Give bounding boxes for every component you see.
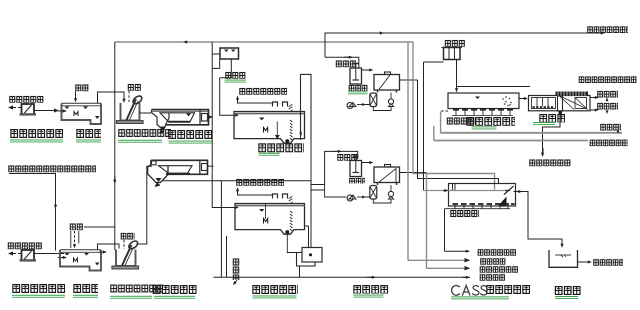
anaerobic hydrolysis tank 厌氧水解池 no.1 xyxy=(234,112,305,144)
label 中浓度污水 (medium-strength wastewater) xyxy=(8,242,43,249)
wire: air header drops from aeration tank xyxy=(440,112,442,134)
label 配水井 (no.1) xyxy=(225,72,246,79)
wire: black vertical bus x=417.5 feeding CASS xyxy=(418,80,499,184)
biogas offtake pipes on tank no.2 roof xyxy=(273,194,293,204)
green underline xyxy=(225,79,247,82)
gray air duct line y=140.5 xyxy=(434,140,588,142)
biogas offtake pipes on tank no.1 roof xyxy=(273,102,293,112)
wire: screened overflow outfall (dashed, arrow left) xyxy=(9,253,21,255)
wire: gray stub y=260.3 xyxy=(408,259,469,261)
wire: aeration tank outlet to clarifier xyxy=(519,98,527,100)
flotation feed pump sump (double box) xyxy=(297,248,323,267)
wire: saturator outlet to CASS feed bus xyxy=(400,79,418,81)
wire: long vertical bus x=212.2 (top bus to anaerobic tank no.2 inlet) xyxy=(212,48,220,54)
label 反应器 (upper, green underline) xyxy=(349,85,368,92)
wire: bottom long header y=277.3 to outfall stub xyxy=(214,276,471,278)
drain arrow xyxy=(234,280,238,285)
wire: lower screen tank riser up to lamella settling tank xyxy=(137,166,152,244)
wire: black vertical x=423.5 (shaft header to CASS water line) xyxy=(424,61,444,63)
wire: clarifier effluent arrows to municipal drain xyxy=(590,97,598,99)
wire: well no.1 right downcomer to bus x=219.7 xyxy=(220,59,232,78)
recirculation pump (lower) xyxy=(347,195,365,201)
label 去气体处理设备 (lower) xyxy=(236,179,284,186)
wire: well no.2 drop to aeration tank inlet xyxy=(456,60,458,92)
wire: column to valve piping (upper) xyxy=(365,93,391,111)
label row: 粗格栅集水井 (lower) xyxy=(12,284,65,294)
wire: riser feeding lower flocculant unit xyxy=(325,151,358,184)
wire: gray vertical bus x=413 feeding CASS top xyxy=(413,42,495,190)
distribution well 配水井 no.2 xyxy=(442,48,463,60)
label 来自鼓风机房 (right) xyxy=(590,139,628,146)
label 接纳海池 (stub) xyxy=(480,274,506,281)
label 配水井 no.2 xyxy=(445,40,466,47)
wire: well no.1 left downcomer to bus x=212.2 xyxy=(212,59,220,68)
secondary clarifier 二沉池 xyxy=(529,92,591,116)
wire: screen box to lower equalization tank xyxy=(35,253,65,255)
wire: inlet arrow anaerobic tank no.2 xyxy=(230,207,238,209)
wire: biogas header to gas treatment (tank no.1) xyxy=(238,97,273,104)
label 调节池 (lower) xyxy=(73,284,98,294)
wire: drain vertical x=226.5 to bottom header xyxy=(226,236,228,277)
pressure release valve (lower) xyxy=(388,191,393,199)
label 反应器 (lower) xyxy=(349,178,365,184)
wire: screened overflow to outfall (dashed, arrow left) xyxy=(9,107,21,109)
wire: thickener drop arrow above 去污泥浓缩池 mid label xyxy=(542,148,544,156)
wire: inlet arrow into equalization tank xyxy=(58,110,66,112)
dissolved air release column (lower) xyxy=(370,186,377,200)
label CASS好氧反应池 xyxy=(452,285,487,295)
distribution well 配水井 (no.1) xyxy=(220,48,239,59)
flocculant dosing tank with mixer (lower) xyxy=(350,156,362,177)
wire: column to valve piping (lower) xyxy=(365,185,391,203)
gray air duct line y=132.8 xyxy=(441,132,622,134)
equalization tank 调节池 (upper) xyxy=(62,103,102,124)
wire: equalization tank riser to mechanical screen channel xyxy=(98,92,125,103)
wire: clarifier outlet down then to buffer tank xyxy=(514,191,522,193)
label 自辐流沉淀池污泥回流 xyxy=(579,76,637,83)
wire: saturator outlet (lower) to bus x=426.5 xyxy=(400,172,427,174)
plug-flow aeration tank 推流曝气池 xyxy=(448,93,519,116)
CASS aerobic reactor tank xyxy=(424,184,516,209)
wire: lamella sludge line to vertical bus x=221.4 xyxy=(163,180,311,182)
coarse bar screen box (lower train) xyxy=(20,250,37,262)
effluent shaft (tall narrow chamber) beside anaerobic tanks xyxy=(301,74,312,140)
label 厌氧水解池 no.1 xyxy=(258,143,304,153)
dissolved air release column (upper) xyxy=(370,93,377,107)
label 二沉池 xyxy=(539,114,565,123)
label 高浓度污水 (high-strength wastewater) xyxy=(9,96,44,103)
green underline xyxy=(259,152,280,155)
label 鼓风曝气 (under CASS) xyxy=(450,210,479,218)
wire: sump drop to bottom header xyxy=(299,266,301,277)
recirculation pump (upper) xyxy=(347,103,365,109)
label 去集泥池 (stub) xyxy=(480,258,506,265)
wire: branch y=57 feeding upper flocculant unit xyxy=(325,57,359,67)
green underline xyxy=(118,139,162,142)
coarse bar screen box (upper train) xyxy=(20,104,37,116)
label 石灰 (lime, upper equalization tank) xyxy=(75,84,89,91)
label 来自鼓风机房 (stub) xyxy=(478,249,517,256)
label 除油沉淀池 (overlapping) xyxy=(168,130,212,140)
equalization tank 调节池 (lower) xyxy=(60,250,101,271)
wire: lime dashed drop into lower equalization tank xyxy=(74,231,76,248)
wire: gray vertical bus x=426.5 to thickener stub xyxy=(426,173,428,269)
flocculant dosing tank with mixer (upper) xyxy=(350,64,362,85)
wire: lamella tank outlet joins bus x=213.5 xyxy=(208,165,214,167)
label 自浓缩池上清液、脱水间污水 xyxy=(8,165,96,172)
wire: bottom header stub arrow xyxy=(462,276,469,278)
oil removal sedimentation tank 除油沉淀池 xyxy=(152,110,209,134)
label 去污泥浓缩池 (top right) xyxy=(587,26,628,33)
green underline xyxy=(76,139,101,142)
wire: tank no.2 outlet to bus x=318 xyxy=(305,225,309,227)
lamella settling tank 斜板沉淀池 xyxy=(148,160,208,187)
wire: blower air stub y=251.2 xyxy=(445,250,470,252)
wire: branch y=184.5 to flotation pump suction xyxy=(311,185,346,198)
label 接市政排 b xyxy=(597,103,618,110)
label 絮凝剂 (lower) xyxy=(337,154,358,161)
label 斜板沉淀池 (overlapping) xyxy=(153,285,197,295)
label 去污泥浓缩池 (mid right) xyxy=(529,159,571,166)
mechanical fine screen tank 机械格栅集水井 (upper) xyxy=(117,94,144,123)
wire: buffer tank outlet to reuse pipe xyxy=(578,261,592,263)
anaerobic hydrolysis tank 厌氧水解池 no.2 xyxy=(235,204,305,253)
wire: lime line y=227 to feeder x=114.8 xyxy=(84,226,115,228)
wire: dosing tank to saturator (lower) xyxy=(362,162,373,164)
wire: CASS air drop x=444.5 to blower stub xyxy=(444,209,446,252)
wire: lime dashed drop into lower mechanical screen xyxy=(123,240,125,249)
mechanical fine screen tank 机械格栅集水井 (lower) xyxy=(112,240,139,269)
label 去污泥浓缩池 (stub) xyxy=(480,266,519,273)
wire: lower equalization riser to mechanical screen xyxy=(98,244,120,250)
label 去气体处理设备 (upper) xyxy=(239,88,287,95)
wire: biogas header to gas treatment (tank no.2) xyxy=(238,188,273,195)
wire: supernatant line down to lower equalization inlet xyxy=(9,174,56,251)
buffer tank 缓冲池 xyxy=(549,250,578,267)
wire: top black bus riser x=325 and y=33 line to sludge thickener xyxy=(325,33,604,57)
label 接回用水管 xyxy=(593,259,623,266)
label 接市政排 c xyxy=(600,124,621,131)
wire: lime dashed drop into mechanical screen tank xyxy=(128,91,130,102)
wire: long vertical bus x=312.5 down to flotation pump sump xyxy=(309,140,312,247)
wire: dosing tank to saturator (upper) xyxy=(362,69,373,71)
wire: sedimentation tank outlet to distribution well riser xyxy=(209,116,213,118)
small up-down arrows near right labels xyxy=(606,98,608,101)
wire: top gray distribution bus y=42 xyxy=(115,41,413,43)
label 缓冲池 xyxy=(555,286,582,296)
label 机械格栅集水井 (lower) xyxy=(110,284,163,294)
vertical label 排放口 beside drain xyxy=(233,258,241,280)
pressure release valve (upper) xyxy=(388,99,393,107)
wire: lime dosing line into upper equalization tank xyxy=(75,92,77,102)
wire: vertical bus x=221.4 down to bottom header xyxy=(220,181,222,277)
wire: inlet arrow anaerobic tank no.1 xyxy=(230,114,238,116)
wire: long vertical feeder x=114.8 from top bus to lower train xyxy=(114,42,116,250)
label 石灰 (lime, lower mechanical screen) xyxy=(121,233,135,240)
wire: return sludge line y=86.5 xyxy=(457,86,531,88)
wire: mechanical screen to oil-removal sedimentation tank xyxy=(140,112,152,114)
label row: 粗格栅集水井 (upper) xyxy=(10,129,63,139)
green underline xyxy=(169,140,212,143)
label 絮凝剂 (upper) xyxy=(336,60,357,67)
label 石灰 (lime, lower equalization) xyxy=(70,223,84,230)
wire: vertical bus x=219.7 feeding anaerobic tank no.1 xyxy=(220,78,230,116)
label 厌氧水解池 no.2 xyxy=(252,285,298,295)
wire: gray stub y=268.3 xyxy=(427,267,470,269)
label 鼓风曝气+推流曝气池 (under aeration tank) xyxy=(447,117,476,125)
wire: screen box to equalization tank xyxy=(35,110,59,112)
wire: gray vertical bus x=408 (flotation effluent) xyxy=(407,42,409,261)
label 机械格栅集水井 (upper) xyxy=(118,129,171,139)
label 调节池 (upper) xyxy=(76,129,101,139)
wire: clarifier sludge down to thickener xyxy=(543,111,561,156)
air saturator vessel (upper) xyxy=(374,72,400,93)
green underline xyxy=(10,139,63,142)
air saturator vessel (lower) xyxy=(374,165,400,186)
label 气浮装置 xyxy=(353,285,389,294)
arrow on gray bus xyxy=(184,41,192,43)
label 接市政排water a xyxy=(597,91,618,98)
label 石灰 (lime, upper mechanical screen) xyxy=(128,84,142,91)
